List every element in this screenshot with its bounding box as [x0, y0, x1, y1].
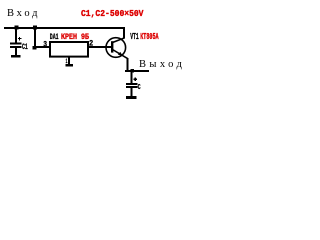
ground C1 [11, 55, 21, 58]
svg-text:КРЕН 9Б: КРЕН 9Б [61, 32, 89, 42]
svg-text:3: 3 [43, 40, 47, 49]
node corner dot at pin 3 [33, 46, 37, 50]
regulator DA1 box [50, 42, 88, 57]
svg-text:КТ805А: КТ805А [140, 32, 159, 42]
wire emitter vertical [127, 58, 129, 71]
wire output line [125, 70, 149, 72]
wire pin 2 lead to base [89, 46, 112, 48]
capacitor C2 plus sign [133, 79, 137, 80]
wire C2 upper lead [131, 72, 133, 83]
node junction dot C1 tap [15, 26, 19, 30]
emitter diagonal [113, 50, 128, 59]
node junction dot regulator tap [33, 26, 37, 30]
wire C1 lower lead [15, 48, 17, 55]
wire top rail [4, 27, 125, 29]
transistor VT1 [106, 38, 128, 59]
svg-text:Выход: Выход [139, 59, 185, 70]
svg-text:C: C [138, 84, 141, 92]
emitter arrow [118, 52, 123, 56]
svg-text:VT1: VT1 [130, 32, 139, 42]
svg-text:Вход: Вход [7, 8, 40, 19]
node junction dot C2 tap [130, 69, 134, 73]
wire regulator ground lead [68, 58, 70, 65]
wire regulator input drop [34, 29, 36, 47]
wire C1 upper lead [15, 29, 17, 43]
capacitor C1 bottom plate [10, 46, 22, 48]
capacitor C1 plus sign [18, 38, 22, 39]
svg-text:2: 2 [89, 39, 93, 49]
wire pin 3 lead [36, 46, 49, 48]
svg-text:C1: C1 [22, 43, 28, 52]
wire C2 lower lead [131, 88, 133, 96]
capacitor C2 bottom plate [126, 86, 138, 88]
svg-text:1: 1 [66, 58, 68, 65]
ground C2 [126, 96, 137, 99]
capacitor C1 top plate [10, 43, 22, 45]
capacitor C2 top plate [126, 83, 138, 85]
svg-text:DA1: DA1 [50, 33, 59, 42]
wire collector vertical [123, 29, 125, 39]
ground regulator pin 1 [66, 64, 74, 67]
collector diagonal [113, 38, 125, 43]
svg-text:C1,C2-500×50V: C1,C2-500×50V [81, 9, 144, 19]
base bar [111, 41, 113, 52]
